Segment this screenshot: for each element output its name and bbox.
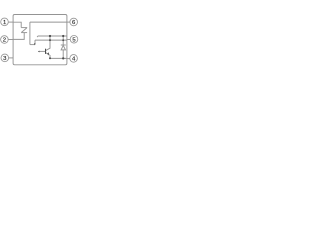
junction dot railA diode (62, 35, 64, 37)
pin 4 circle (70, 55, 78, 63)
base wire top rail to pin6 (30, 21, 67, 23)
bottom rail to pin4 (50, 57, 67, 59)
svg-text:1: 1 (3, 20, 6, 26)
junction dot railA collector (49, 35, 51, 37)
junction dot emitter rail (49, 57, 51, 59)
package outline box (13, 15, 67, 65)
base stub end blob (38, 51, 40, 53)
transistor Q1 emitter arrowhead (47, 52, 49, 55)
optocoupler internal schematic (0, 0, 80, 80)
LED D1 triangle diagonal (22, 28, 27, 32)
rail A end tick (36, 36, 39, 37)
collector vertical (46, 36, 50, 50)
pin 6 wire (67, 21, 70, 23)
wire rail B (35, 39, 67, 41)
transistor Q1 emitter (46, 53, 49, 55)
diode D2 cathode bar (61, 44, 66, 46)
transistor Q1 base stub (39, 50, 45, 52)
junction dot railB diode (62, 39, 64, 41)
LED D1 anode wire from pin1 (13, 22, 21, 27)
pin 1 wire (8, 21, 13, 23)
staircase corner arrowhead (34, 43, 36, 45)
pin 3 circle (1, 54, 9, 62)
pin 5 wire (67, 39, 70, 41)
pin 1 circle (1, 18, 9, 26)
junction dot bottom rail diode (62, 57, 64, 59)
pin 3 wire (9, 57, 14, 59)
diode D2 triangle (61, 45, 65, 50)
LED D1 cathode bar (21, 32, 27, 34)
pin 4 wire (67, 58, 70, 60)
base wire riser (29, 22, 31, 44)
diode D2 bottom wire (62, 50, 64, 59)
diode D2 top wire (62, 36, 64, 45)
wire rail A (38, 35, 67, 37)
pin 2 wire (8, 39, 13, 41)
svg-text:2: 2 (3, 38, 6, 44)
pin 2 circle (1, 36, 9, 44)
LED D1 triangle top edge (21, 27, 27, 29)
base wire staircase up (34, 40, 36, 44)
LED D1 cathode wire to pin2 (13, 33, 24, 40)
transistor Q1 base bar (45, 49, 46, 54)
pin 5 circle (70, 36, 78, 44)
junction dot railB collector (49, 39, 51, 41)
base wire staircase bottom (30, 44, 35, 46)
pin 6 circle (70, 18, 78, 26)
transistor Q1 emitter drop (49, 55, 51, 58)
